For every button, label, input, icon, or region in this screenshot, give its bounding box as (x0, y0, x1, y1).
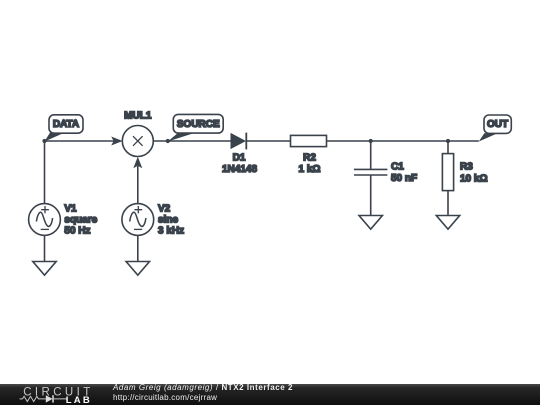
flag OUT box (484, 115, 511, 133)
svg-text:50 Hz: 50 Hz (64, 226, 90, 237)
flag SOURCE box (173, 114, 223, 133)
wire from DATA node to MUL1 input (45, 140, 115, 142)
diode D1 anode triangle (231, 133, 247, 149)
capacitor C1 bottom plate (354, 174, 387, 176)
svg-text:V1: V1 (64, 203, 77, 214)
wire R3 bottom to ground (447, 191, 449, 216)
svg-text:V2: V2 (158, 203, 171, 214)
svg-text:10 kΩ: 10 kΩ (460, 173, 487, 184)
svg-text:D1: D1 (233, 153, 246, 164)
footer bar (0, 384, 540, 405)
ground below C1 (359, 216, 382, 230)
logo squiggle wire lead (20, 398, 23, 400)
svg-text:DATA: DATA (53, 119, 79, 130)
node dot SOURCE (166, 139, 170, 143)
wire node down to R3 top (447, 141, 449, 154)
V1 plus sign (41, 206, 49, 213)
svg-text:1N4148: 1N4148 (222, 164, 257, 175)
svg-text:3 kHz: 3 kHz (158, 226, 184, 237)
resistor R3 body (442, 154, 453, 191)
capacitor C1 top plate (354, 168, 387, 170)
logo wire to LAB (42, 398, 67, 400)
logo resistor zigzag (23, 396, 42, 401)
node dot DATA (42, 139, 46, 143)
svg-text:square: square (64, 215, 97, 226)
wire V2 bottom to ground (137, 235, 139, 261)
flag SOURCE tail (168, 133, 194, 142)
logo diode bar (52, 395, 54, 402)
diode D1 cathode bar (245, 133, 247, 150)
wire MUL1 output to diode D1 (153, 140, 230, 142)
flag OUT tail (479, 133, 497, 141)
resistor R2 body (291, 135, 327, 146)
wire D1 cathode to R2 (246, 140, 290, 142)
svg-text:LAB: LAB (66, 395, 92, 405)
svg-text:SOURCE: SOURCE (177, 119, 220, 130)
voltage source V1 body (29, 204, 61, 236)
wire R2 to OUT flag across C1 and R3 junctions (327, 140, 479, 142)
svg-text:R3: R3 (460, 162, 473, 173)
svg-text:R2: R2 (303, 153, 316, 164)
ground below V2 (126, 262, 149, 276)
V1 sine wave (36, 212, 52, 226)
wire from DATA node down to V1 (44, 141, 46, 204)
ground below V1 (33, 262, 56, 276)
svg-text:1 kΩ: 1 kΩ (299, 164, 321, 175)
node dot at R3 (446, 139, 450, 143)
svg-text:C1: C1 (391, 162, 404, 173)
wire V2 top to MUL1 bottom (137, 166, 139, 204)
multiplier MUL1 body (122, 126, 153, 157)
svg-text:OUT: OUT (487, 119, 508, 130)
logo diode (46, 395, 53, 402)
node dot at C1 (369, 139, 373, 143)
flag DATA box (49, 115, 83, 133)
flag DATA tail (45, 133, 65, 142)
MUL1 times symbol (133, 136, 143, 146)
footer credit text (113, 383, 293, 403)
V2 sine wave (130, 212, 146, 226)
V2 plus sign (135, 206, 143, 213)
ground below R3 (436, 216, 459, 230)
V1 minus sign (41, 228, 49, 230)
svg-text:50 nF: 50 nF (391, 173, 417, 184)
CircuitLab logo (19, 384, 99, 410)
wire arrowhead into MUL1 bottom (133, 157, 142, 168)
svg-text:sine: sine (158, 215, 178, 226)
V2 minus sign (134, 228, 142, 230)
wire C1 bottom plate to ground (370, 175, 372, 216)
wire arrowhead into MUL1 left (111, 137, 122, 146)
svg-text:MUL1: MUL1 (124, 111, 152, 122)
wire node down to C1 top plate (370, 141, 372, 169)
voltage source V2 body (122, 204, 154, 236)
wire V1 bottom to ground (44, 235, 46, 261)
